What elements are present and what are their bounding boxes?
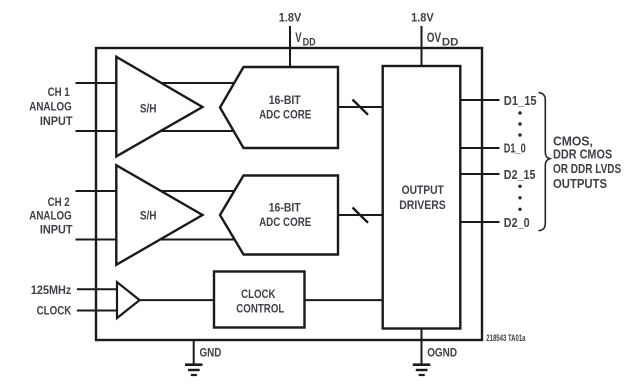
svg-text:S/H: S/H	[140, 209, 157, 223]
svg-text:OUTPUT: OUTPUT	[402, 183, 445, 197]
svg-text:OR DDR LVDS: OR DDR LVDS	[553, 161, 622, 176]
svg-text:ANALOG: ANALOG	[29, 100, 71, 114]
svg-text:D1_0: D1_0	[504, 142, 526, 156]
svg-text:1.8V: 1.8V	[411, 13, 434, 25]
svg-text:CLOCK: CLOCK	[37, 303, 72, 317]
svg-text:GND: GND	[200, 346, 222, 360]
svg-text:DD: DD	[442, 36, 459, 48]
svg-text:218543 TA01a: 218543 TA01a	[486, 333, 526, 343]
svg-text:DRIVERS: DRIVERS	[399, 198, 446, 212]
svg-text:S/H: S/H	[140, 102, 157, 116]
svg-text:DDR CMOS: DDR CMOS	[553, 147, 613, 162]
svg-text:ADC CORE: ADC CORE	[259, 108, 311, 122]
svg-text:OGND: OGND	[427, 345, 457, 359]
svg-text:CH 2: CH 2	[48, 195, 70, 209]
svg-text:D1_15: D1_15	[504, 94, 537, 108]
svg-text:OV: OV	[427, 29, 442, 45]
svg-text:ADC CORE: ADC CORE	[259, 215, 311, 229]
svg-text:16-BIT: 16-BIT	[269, 200, 302, 214]
svg-text:16-BIT: 16-BIT	[269, 93, 302, 107]
svg-text:OUTPUTS: OUTPUTS	[553, 176, 607, 191]
svg-text:CONTROL: CONTROL	[236, 302, 284, 316]
svg-text:V: V	[295, 29, 302, 45]
svg-text:INPUT: INPUT	[40, 222, 73, 236]
svg-text:CH 1: CH 1	[48, 85, 70, 99]
svg-text:DD: DD	[303, 36, 316, 48]
svg-text:CLOCK: CLOCK	[241, 287, 276, 301]
svg-text:ANALOG: ANALOG	[29, 209, 71, 223]
svg-text:125MHz: 125MHz	[31, 283, 71, 297]
svg-text:INPUT: INPUT	[40, 114, 73, 128]
svg-text:D2_0: D2_0	[504, 216, 530, 230]
svg-text:1.8V: 1.8V	[279, 13, 302, 25]
svg-text:D2_15: D2_15	[504, 168, 536, 182]
